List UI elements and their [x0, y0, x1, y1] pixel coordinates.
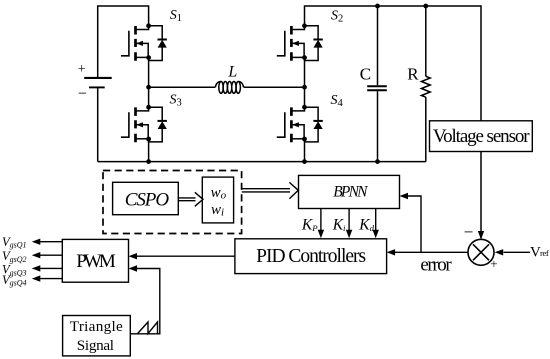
- svg-text:ref: ref: [540, 248, 549, 258]
- svg-text:S2: S2: [331, 9, 343, 25]
- svg-text:−: −: [464, 223, 474, 242]
- svg-text:KP: KP: [301, 217, 318, 234]
- svg-text:+: +: [78, 62, 86, 77]
- svg-text:error: error: [420, 255, 452, 276]
- svg-text:Kd: Kd: [358, 217, 374, 234]
- svg-text:S3: S3: [170, 92, 182, 108]
- svg-text:C: C: [360, 65, 371, 84]
- svg-text:PWM: PWM: [76, 251, 116, 272]
- svg-text:CSPO: CSPO: [125, 190, 170, 211]
- svg-text:−: −: [78, 86, 87, 103]
- svg-text:S4: S4: [331, 93, 344, 109]
- svg-text:PID Controllers: PID Controllers: [256, 246, 366, 267]
- svg-text:L: L: [227, 64, 237, 81]
- svg-text:+: +: [490, 256, 497, 271]
- svg-text:R: R: [407, 65, 419, 84]
- svg-text:wo: wo: [211, 185, 227, 202]
- svg-text:VgsQ1: VgsQ1: [2, 235, 27, 250]
- svg-text:Triangle: Triangle: [70, 318, 123, 335]
- svg-text:BPNN: BPNN: [333, 184, 369, 201]
- svg-text:S1: S1: [170, 8, 182, 24]
- svg-text:wi: wi: [211, 202, 224, 219]
- svg-text:Voltage sensor: Voltage sensor: [433, 126, 530, 147]
- svg-text:Signal: Signal: [77, 337, 114, 354]
- svg-text:Ki: Ki: [332, 217, 346, 234]
